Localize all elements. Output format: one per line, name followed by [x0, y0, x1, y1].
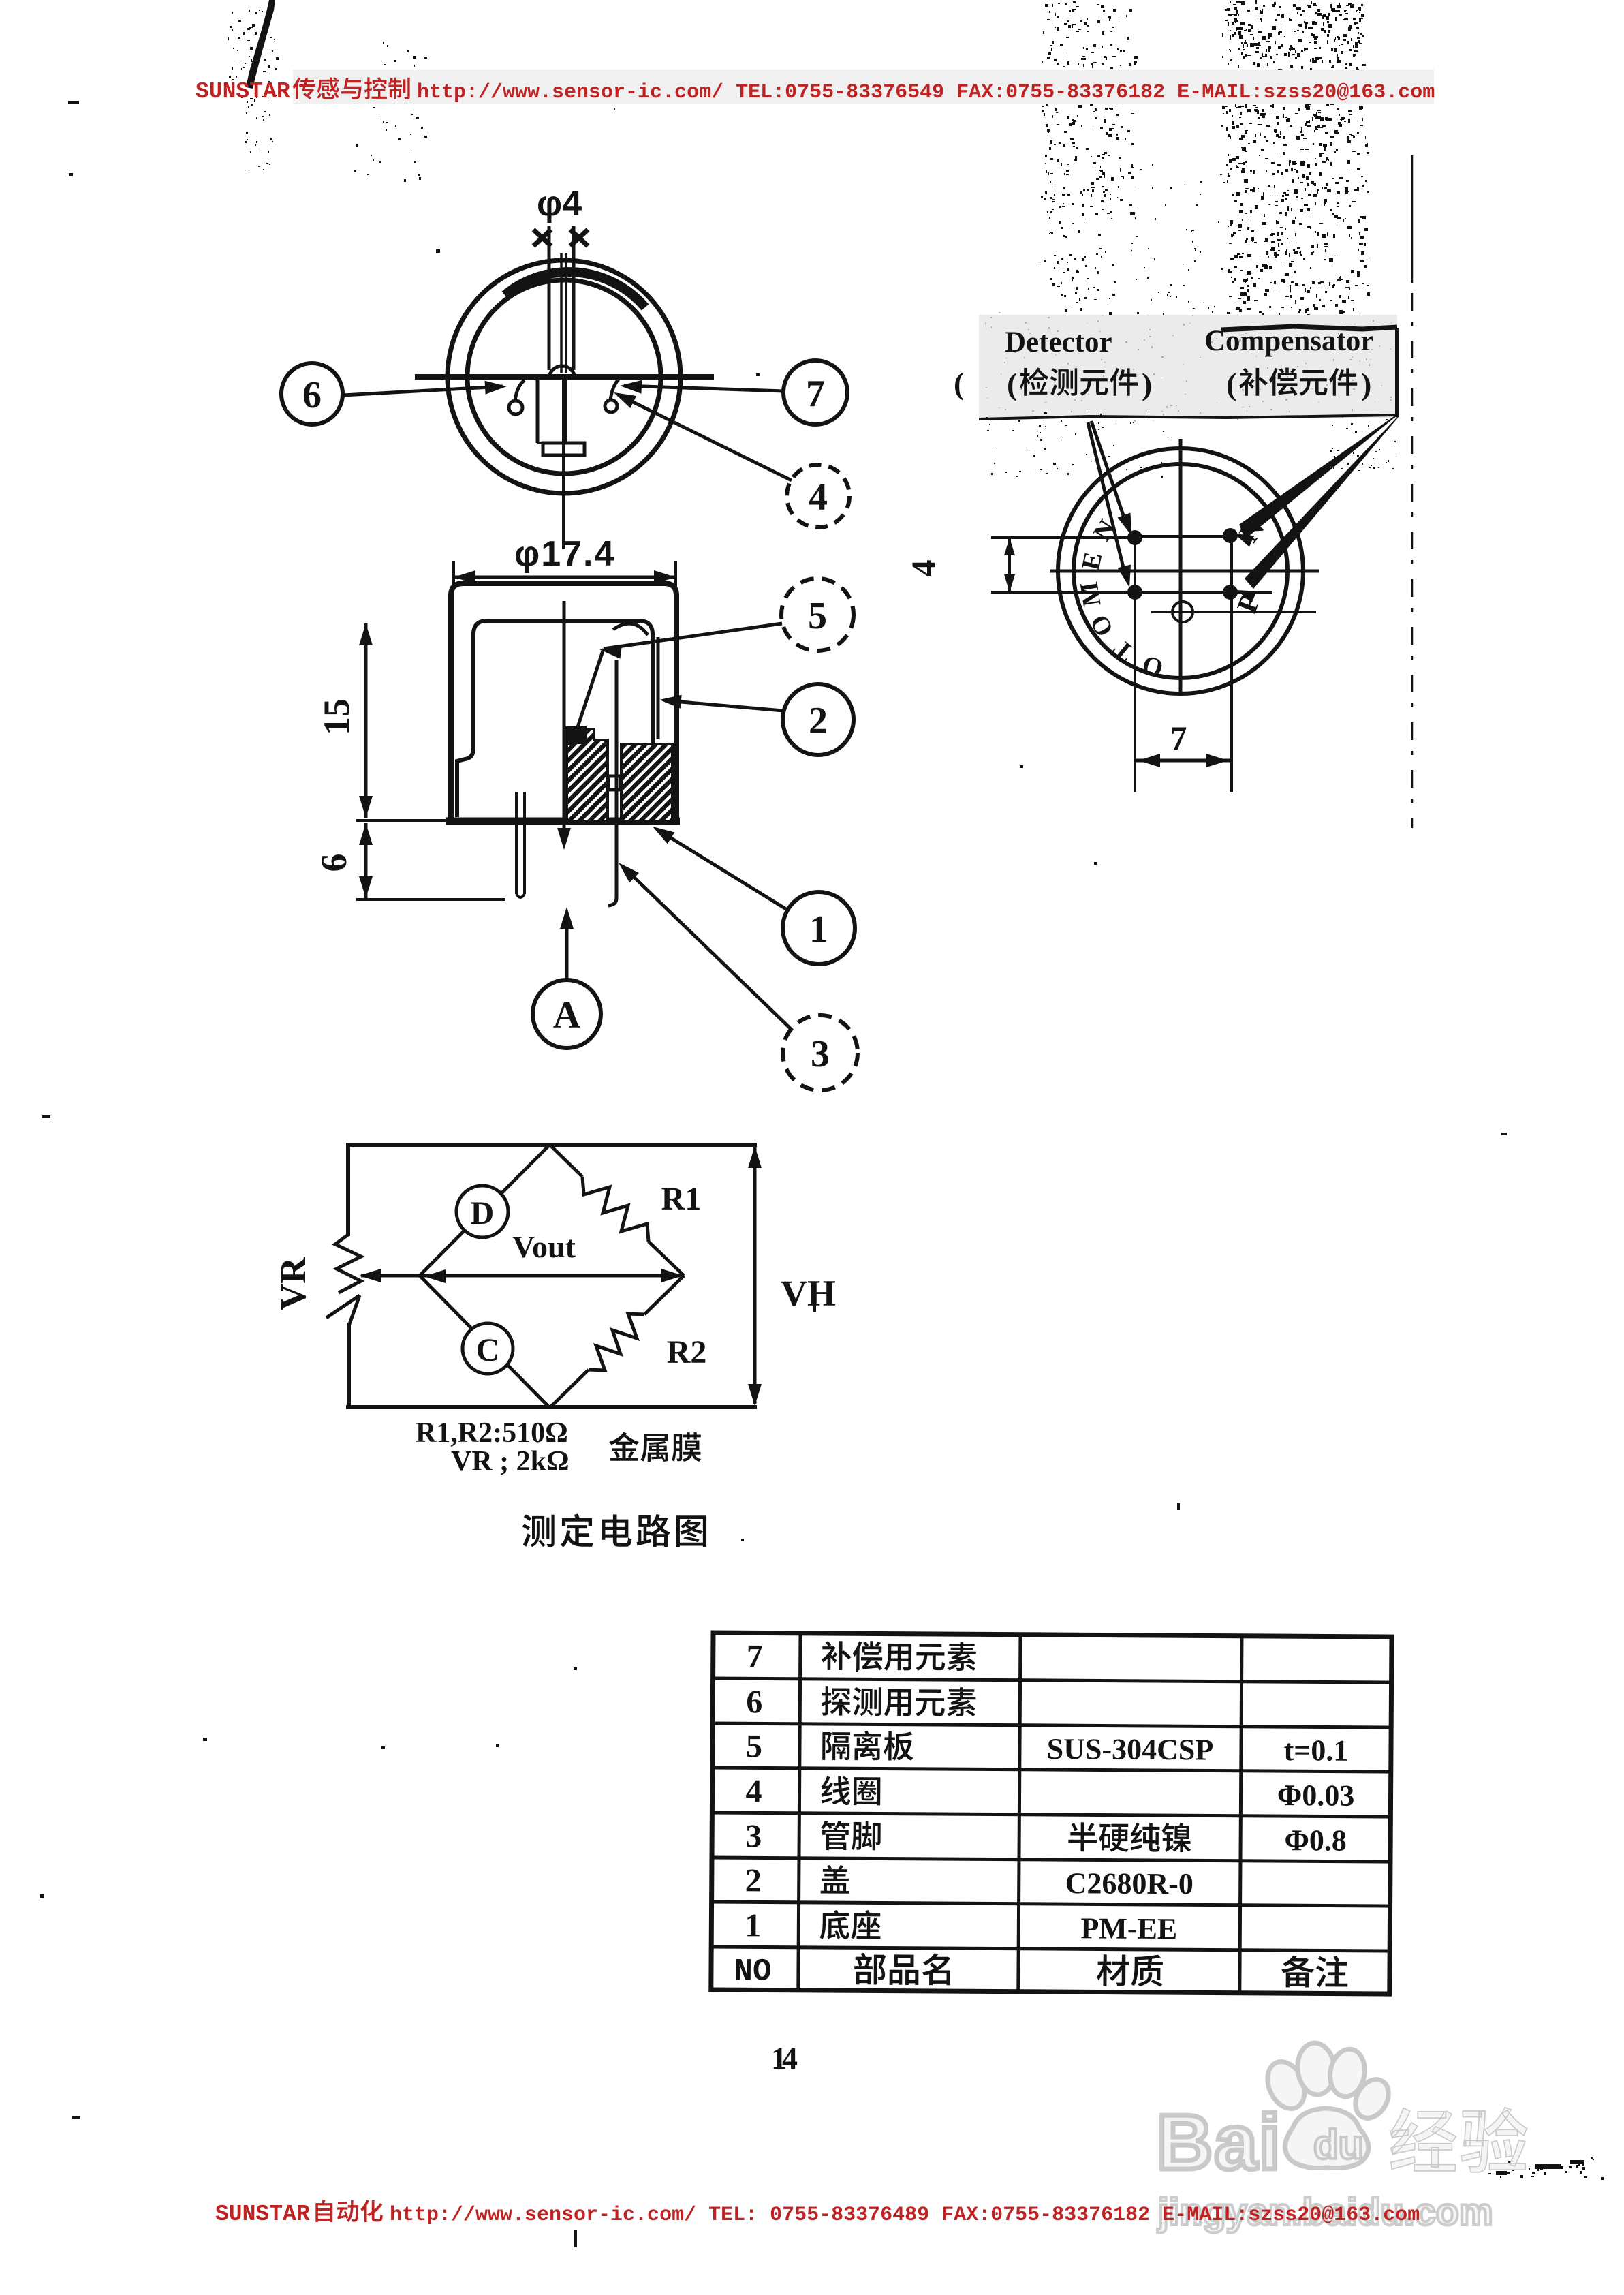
right lead wire [608, 660, 616, 906]
vertical centre line [562, 377, 565, 549]
leader from balloon 3 [623, 867, 792, 1030]
pin rectangle lines [1134, 537, 1136, 792]
svg-text:4: 4 [904, 560, 942, 577]
coil window square [608, 776, 621, 790]
compensator element C [463, 1323, 513, 1374]
balloon 2 [783, 684, 854, 755]
svg-text:NO: NO [734, 1954, 772, 1989]
inner wall extra line [657, 637, 660, 739]
centre bump half-circle [549, 366, 575, 379]
svg-text:Detector: Detector [1005, 326, 1112, 358]
pin-end reference line [356, 898, 505, 901]
leader from balloon 1 [658, 830, 788, 910]
right pin hook [605, 400, 617, 412]
svg-text:2: 2 [809, 700, 828, 742]
table part names [822, 1641, 852, 1670]
wire left lower [347, 1323, 351, 1409]
sensor bottom view outer circle [1058, 448, 1303, 694]
svg-text:4: 4 [745, 1773, 762, 1809]
leader from balloon 7 [624, 386, 783, 391]
svg-text:SUNSTAR: SUNSTAR [196, 79, 290, 104]
hatched base left block [567, 729, 608, 822]
svg-text:(: ( [954, 366, 964, 401]
dimension 15 [364, 623, 368, 818]
svg-text:(: ( [1007, 367, 1017, 401]
dimension 4 [1008, 538, 1011, 592]
svg-text:1: 1 [745, 1907, 761, 1943]
leader from balloon 6 [343, 386, 503, 395]
svg-text:5: 5 [746, 1728, 762, 1764]
phi4 dimension: extension lines [548, 226, 551, 370]
parts table [711, 1633, 1392, 1994]
svg-text:D: D [471, 1195, 495, 1231]
dimension 7 [1135, 759, 1232, 763]
wire top rail [346, 1143, 757, 1147]
svg-text:6: 6 [746, 1684, 762, 1720]
VH supply arrow [753, 1147, 757, 1404]
thick weld arc [505, 272, 645, 307]
balloon 7 [783, 360, 847, 425]
svg-text:VR ; 2kΩ: VR ; 2kΩ [451, 1446, 569, 1477]
svg-text:t=0.1: t=0.1 [1283, 1734, 1348, 1768]
svg-text:φ17.4: φ17.4 [514, 534, 615, 574]
bridge edge with resistor R1 [550, 1145, 582, 1177]
svg-text:5: 5 [808, 595, 827, 637]
left pin hook [509, 401, 522, 414]
base reference line [356, 819, 450, 822]
svg-text:R2: R2 [667, 1334, 707, 1370]
cap outer outline [451, 583, 676, 818]
bridge edge with resistor R2 [644, 1276, 684, 1314]
svg-text:7: 7 [747, 1638, 763, 1674]
label box border bottom [979, 415, 1397, 419]
NEMOTO curved brand text [1075, 515, 1167, 683]
svg-text:VR: VR [272, 1257, 313, 1310]
sensor top view outer case circle [448, 260, 681, 493]
svg-text:15: 15 [316, 698, 357, 735]
sensor top view inner rim circle [467, 280, 661, 474]
phi17.4 dimension line [454, 576, 676, 579]
Vout arrow [361, 1274, 681, 1278]
svg-text:Vout: Vout [512, 1229, 576, 1264]
balloon 1 [783, 892, 855, 964]
svg-text:R1,R2:510Ω: R1,R2:510Ω [416, 1417, 568, 1449]
leader from balloon 2 [665, 700, 783, 711]
svg-text:Compensator: Compensator [1204, 325, 1373, 357]
balloon 4 [787, 465, 849, 527]
potentiometer VR wiper stroke [326, 1295, 360, 1318]
stray tick below footer [574, 2230, 577, 2247]
cap inner outline [473, 621, 653, 748]
svg-text:SUNSTAR: SUNSTAR [215, 2202, 310, 2227]
index hole symbol [1172, 602, 1193, 622]
centre post below [536, 379, 540, 443]
svg-text:PM-EE: PM-EE [1080, 1911, 1177, 1945]
table outer border [711, 1633, 1392, 1994]
cap bottom flange [446, 818, 680, 825]
inner outline right step [653, 741, 670, 817]
svg-text:M: M [1075, 580, 1107, 609]
table column lines [798, 1633, 800, 1990]
wire left upper [346, 1143, 350, 1236]
svg-text:Φ0.03: Φ0.03 [1277, 1778, 1355, 1813]
svg-text:SUS-304CSP: SUS-304CSP [1047, 1732, 1214, 1766]
section line A-A [563, 601, 566, 840]
table row lines [713, 1678, 1392, 1682]
inner outline left step [457, 748, 473, 817]
sensor bottom view inner circle [1074, 464, 1287, 678]
bridge edge to detector D [420, 1145, 550, 1276]
bridge edge to compensator C [420, 1276, 550, 1408]
svg-text:1: 1 [809, 908, 828, 951]
hatched base right block [621, 744, 672, 822]
balloon 5 [781, 579, 854, 651]
svg-text:http://www.sensor-ic.com/ TEL:: http://www.sensor-ic.com/ TEL:0755-83376… [417, 81, 1435, 104]
svg-text:): ) [1361, 367, 1371, 401]
caption: measuring circuit diagram [522, 1515, 555, 1547]
vertical centre line [1179, 439, 1183, 695]
dimension 6 [364, 823, 368, 898]
pin dots [1127, 530, 1142, 545]
leader from balloon 5 [604, 623, 782, 649]
svg-text:φ4: φ4 [537, 184, 582, 224]
svg-text:6: 6 [313, 854, 354, 872]
svg-text:(: ( [1226, 367, 1236, 401]
horizontal centre line [415, 374, 714, 380]
balloon 6 [281, 363, 343, 425]
leaders from Detector label [1091, 421, 1127, 527]
resistor R2 zigzag [589, 1314, 644, 1370]
svg-text:C: C [476, 1332, 500, 1368]
potentiometer VR zigzag [335, 1235, 361, 1293]
svg-text:7: 7 [1170, 719, 1187, 757]
phi4 dimension arrows [533, 230, 551, 246]
baidu watermark [1157, 2041, 1527, 2233]
detector element D [456, 1186, 508, 1237]
leaders from Compensator label [1240, 414, 1398, 538]
svg-text:7: 7 [806, 373, 825, 415]
svg-text:3: 3 [745, 1818, 762, 1854]
resistor R1 zigzag [582, 1177, 649, 1242]
svg-text:): ) [1142, 367, 1152, 401]
header red contact line [293, 70, 1434, 104]
leader from balloon 4 [618, 395, 792, 480]
centre post foot [537, 442, 543, 444]
svg-text:R1: R1 [661, 1181, 702, 1217]
left pin [515, 792, 518, 894]
label box border right [1395, 328, 1399, 417]
svg-text:4: 4 [809, 476, 828, 519]
centre pin wires [560, 253, 563, 373]
separator plate top arc [613, 623, 648, 635]
arrow from balloon A [565, 913, 569, 980]
balloon A [533, 980, 601, 1048]
svg-text:C2680R-0: C2680R-0 [1065, 1866, 1193, 1900]
svg-text:Φ0.8: Φ0.8 [1284, 1823, 1347, 1858]
metal film note [609, 1432, 639, 1461]
svg-text:Bai: Bai [1157, 2099, 1281, 2186]
wire bottom rail [346, 1405, 757, 1409]
svg-text:3: 3 [811, 1033, 830, 1075]
svg-text:du: du [1313, 2122, 1363, 2168]
svg-text:VH: VH [781, 1273, 836, 1314]
svg-text:6: 6 [302, 374, 322, 416]
svg-text:2: 2 [745, 1862, 762, 1898]
svg-text:A: A [553, 994, 581, 1036]
svg-text:http://www.sensor-ic.com/ TEL:: http://www.sensor-ic.com/ TEL: 0755-8337… [390, 2204, 1420, 2227]
horizontal centre line [1050, 570, 1319, 573]
balloon 3 [783, 1015, 858, 1090]
